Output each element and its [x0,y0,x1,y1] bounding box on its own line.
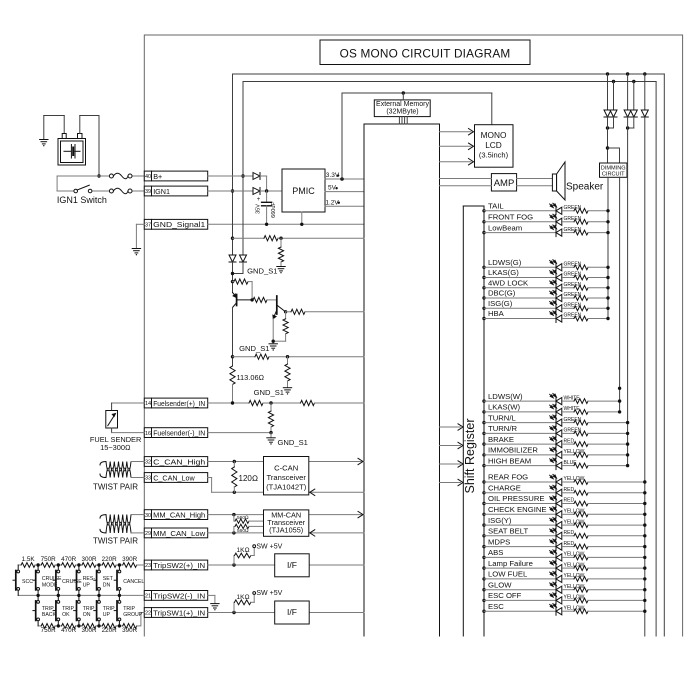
indicator LED CHECK ENGINE (yellow) with series resistor [482,505,646,518]
wire 1.2V [325,205,364,207]
svg-text:OS MONO CIRCUIT DIAGRAM: OS MONO CIRCUIT DIAGRAM [340,47,511,61]
svg-text:Fuelsender(-)_IN: Fuelsender(-)_IN [153,429,205,438]
ground GND_S1 node 1 [277,267,285,274]
title box [320,40,530,65]
outer enclosure border [144,35,682,636]
svg-text:SET: SET [103,576,114,582]
svg-text:TRIP: TRIP [123,606,135,612]
switch TRIP BACK [33,595,40,626]
svg-text:DIMMING: DIMMING [601,165,626,171]
twisted pair (MM-CAN) [106,515,131,526]
AMP U6 [491,174,516,191]
svg-text:RED: RED [564,438,575,444]
svg-text:RES-: RES- [83,576,96,582]
resistor 1K pull-up 1 [233,556,235,566]
svg-text:CRUISE: CRUISE [42,576,62,582]
svg-text:C_CAN_Low: C_CAN_Low [153,473,195,482]
svg-text:Shift Register: Shift Register [463,418,477,493]
resistor 113.06 ohm [230,366,235,384]
svg-text:RED: RED [564,530,575,536]
svg-text:GND_Signal1: GND_Signal1 [153,220,205,229]
indicator LED ESC OFF (yellow) with series resistor [482,591,646,604]
wire diode pair 2 merge [633,117,635,128]
svg-text:ISG(Y): ISG(Y) [488,516,512,525]
diode D3 [607,74,609,110]
junction dots ladder bottom rail [57,624,60,627]
svg-text:(3.5inch): (3.5inch) [479,151,509,160]
svg-text:4WD LOCK: 4WD LOCK [488,279,529,288]
svg-text:LDWS(W): LDWS(W) [488,392,523,401]
wire CPU to shift register 2 [440,445,461,447]
ground GND_S1 node 3 [283,388,291,395]
wire battery positive to B+ node [79,116,81,134]
wire LCD data 3 [440,161,472,163]
svg-text:35V: 35V [256,204,262,214]
svg-text:LKAS(G): LKAS(G) [488,268,519,277]
wire MM_CAN_High [208,514,364,516]
wire TripSW2(+) row [208,564,275,566]
diode D6 [633,82,635,111]
transistor Q2 (NPN) [273,296,286,319]
wire memory top pin [402,93,404,100]
switch TRIP ON [74,595,81,626]
wire LCD data 2 [440,145,472,147]
svg-text:300R: 300R [81,556,97,563]
junction dots ladder mid rail [36,594,39,597]
svg-text:1.5K: 1.5K [22,556,36,563]
indicator LED REAR FOG (yellow) with series resistor [482,473,646,486]
wire B+ riser x=243 [242,82,244,255]
svg-text:29: 29 [145,531,151,537]
wire GND_Signal1 stub to ground [136,223,144,225]
ground GND_S1 node 2 [269,344,277,351]
svg-text:DBC(G): DBC(G) [488,289,516,298]
wire LED rail green x=608 [607,177,609,318]
resistor to GND_S1 (x=281) [280,238,282,247]
svg-text:TripSW2(+)_IN: TripSW2(+)_IN [153,561,205,570]
pin 22 TripSW1(+)_IN [144,608,207,618]
svg-text:ABS: ABS [488,548,503,557]
svg-text:DN: DN [103,583,111,589]
svg-text:300R: 300R [81,627,97,634]
speaker LS1 [552,162,565,200]
svg-text:220R: 220R [102,627,118,634]
svg-text:TURN/R: TURN/R [488,424,517,433]
indicator LED LDWS(W) (white) with series resistor [482,392,621,405]
indicator LED DBC(G) (green) with series resistor [482,289,609,302]
svg-text:ON: ON [83,612,91,618]
pin 40 B+ [144,171,207,181]
svg-text:560Ω: 560Ω [237,515,249,521]
svg-text:HIGH BEAM: HIGH BEAM [488,456,531,465]
wire 5V [325,191,364,193]
svg-text:MONO: MONO [481,130,507,140]
wire LED rail white x=620.5 [619,177,621,412]
switch RES- UP [74,565,81,595]
resistor fuel sense to GND [270,403,272,411]
interface I/F 2 [275,601,310,624]
svg-text:CRUISE: CRUISE [62,579,82,585]
svg-text:IGN1: IGN1 [153,187,170,196]
svg-text:B+: B+ [153,172,162,181]
svg-text:Speaker: Speaker [566,181,604,192]
indicator LED IMMOBILIZER (yellow) with series resistor [482,446,629,459]
ground TripSW2(-) [211,604,219,611]
svg-text:LDWS(G): LDWS(G) [488,258,522,267]
junction diode outputs [265,189,268,192]
transistor Q1 (PNP) [233,293,253,308]
wire AMP to speaker [517,178,553,180]
svg-text:IGN1 Switch: IGN1 Switch [57,195,107,205]
wire top rail B+ y=81.5 [243,81,656,83]
svg-text:UP: UP [103,612,111,618]
fuse F1 (B+) [109,173,132,179]
svg-text:Lamp Failure: Lamp Failure [488,559,533,568]
svg-text:MM_CAN_High: MM_CAN_High [153,511,205,520]
wire TripSW1(+) row [208,612,275,614]
svg-text:REAR FOG: REAR FOG [488,473,528,482]
svg-text:ESC: ESC [488,602,504,611]
svg-text:GND_S1: GND_S1 [247,267,277,276]
svg-text:UP: UP [83,583,91,589]
switch SET DN [94,565,101,595]
svg-text:GND_S1: GND_S1 [239,344,269,353]
svg-text:BACK: BACK [42,612,57,618]
svg-text:GND_S1: GND_S1 [254,388,284,397]
svg-text:470R: 470R [61,556,77,563]
svg-text:1KΩ: 1KΩ [237,594,250,601]
indicator LED GLOW (yellow) with series resistor [482,580,646,593]
wire Fuelsender(+) line [208,402,249,404]
battery B1 [58,134,86,166]
svg-text:113.06Ω: 113.06Ω [237,373,265,382]
svg-text:+: + [257,197,261,203]
svg-text:WHITE: WHITE [564,395,581,401]
wire right rail B+ x=656.1 [655,82,657,637]
wire LED rail yellow x=644 [644,117,646,636]
svg-text:AMP: AMP [494,178,515,189]
wire MM_CAN_Low [208,532,364,534]
svg-text:33: 33 [145,476,151,482]
diode D5 [627,74,629,110]
indicator LED FRONT FOG (green) with series resistor [482,213,609,226]
svg-text:TripSW1(+)_IN: TripSW1(+)_IN [153,608,205,617]
svg-text:750R: 750R [41,627,57,634]
svg-text:CIRCUIT: CIRCUIT [602,172,625,178]
svg-text:External Memory: External Memory [376,101,429,108]
indicator LED BRAKE (red) with series resistor [482,435,629,448]
svg-text:CANCEL: CANCEL [123,579,144,585]
diode D7 [644,74,646,110]
indicator LED ISG(Y) (yellow) with series resistor [482,516,646,529]
svg-text:TRIP: TRIP [83,606,95,612]
wire TripSW2(-) to ground [208,594,215,596]
svg-text:750R: 750R [41,556,57,563]
MCU U3 (main processor) [364,124,440,636]
pin 21 TripSW2(-)_IN [144,591,207,601]
svg-text:LKAS(W): LKAS(W) [488,403,520,412]
svg-text:C_CAN_High: C_CAN_High [153,457,205,466]
indicator LED TURN/L (green) with series resistor [482,413,629,426]
svg-text:32: 32 [145,460,151,466]
svg-text:WHITE: WHITE [564,406,581,412]
svg-text:C-CAN: C-CAN [274,464,298,473]
indicator LED ABS (yellow) with series resistor [482,548,646,561]
wires memory data pins [398,117,400,124]
pin 37 GND_Signal1 [144,219,207,229]
svg-text:TWIST PAIR: TWIST PAIR [93,483,138,492]
svg-text:GND_S1: GND_S1 [278,438,308,447]
resistor 120 ohm termination [233,462,235,468]
indicator LED ISG(G) (green) with series resistor [482,299,609,312]
fuel sender R (rheostat) [112,402,145,404]
resistor 560 ohm (RTH) [233,515,235,522]
svg-text:RED: RED [564,487,575,493]
svg-text:470R: 470R [61,627,77,634]
wire 3.3V riser to LCD [341,93,343,179]
switch SCC [13,565,20,595]
svg-text:390R: 390R [122,627,138,634]
indicator LED Lamp Failure (yellow) with series resistor [482,559,646,572]
wire CPU to shift register 1 [440,426,461,428]
wire dimming feed [607,117,609,163]
wire ladder top rail [18,564,21,566]
svg-text:14: 14 [145,401,151,407]
wire diode merge to transistor [242,262,244,274]
indicator LED TURN/R (green) with series resistor [482,424,629,437]
diode D1 (B+) [253,173,260,180]
pin 23 TripSW2(+)_IN [144,560,207,570]
svg-text:1KΩ: 1KΩ [237,547,250,554]
svg-text:1.2V: 1.2V [325,200,339,207]
indicator LED CHARGE (red) with series resistor [482,484,646,497]
svg-text:I/F: I/F [287,560,297,570]
svg-text:OK: OK [62,612,70,618]
wire sense line y=356.7 [233,356,256,358]
svg-text:HBA: HBA [488,309,505,318]
indicator LED HBA (green) with series resistor [482,309,609,322]
svg-text:SW +5V: SW +5V [256,590,282,597]
svg-text:SW +5V: SW +5V [256,543,282,550]
svg-text:660uF: 660uF [271,202,277,218]
svg-text:16: 16 [145,431,151,437]
svg-text:PMIC: PMIC [292,186,315,196]
fuse F2 (IGN1) [109,188,132,194]
svg-text:TRIP: TRIP [103,606,115,612]
svg-text:LowBeam: LowBeam [488,223,522,232]
junction memory power [402,91,405,94]
wire ladder mid rail [18,594,144,596]
ground GND_S1 node 4 [267,438,275,445]
wire top rail IGN1 y=74 [233,73,665,75]
pin 14 Fuelsender(+)_IN [144,398,207,408]
indicator LED ESC (yellow) with series resistor [482,602,646,615]
diode D4 [613,82,615,111]
svg-text:TripSW2(-)_IN: TripSW2(-)_IN [153,591,205,600]
svg-text:TAIL: TAIL [488,202,504,211]
svg-text:5V: 5V [328,185,337,192]
resistor to GND_S1 (x=287.5) [287,357,289,364]
switch CRUISE [53,565,60,595]
wire Q2 collector line to CPU [284,310,287,313]
svg-text:Fuelsender(+)_IN: Fuelsender(+)_IN [153,399,205,408]
svg-text:CHARGE: CHARGE [488,484,521,493]
svg-text:MM_CAN_Low: MM_CAN_Low [153,529,206,538]
pin 33 C_CAN_Low [144,473,207,483]
svg-text:RED: RED [564,541,575,547]
svg-text:23: 23 [145,563,151,569]
diode D8 (IGN1 riser) [229,255,236,262]
diode D9 (B+ riser) [240,255,247,262]
svg-text:(32MByte): (32MByte) [386,108,418,115]
svg-text:ESC OFF: ESC OFF [488,591,522,600]
wire diode pair 1 merge [613,117,615,128]
svg-text:120Ω: 120Ω [239,474,259,483]
indicator LED MDPS (red) with series resistor [482,537,646,550]
MM-CAN transceiver U8 [264,510,309,536]
junction battery/B+ [97,174,100,177]
indicator LED HIGH BEAM (blue) with series resistor [482,456,629,469]
svg-text:220R: 220R [102,556,118,563]
svg-text:TURN/L: TURN/L [488,413,516,422]
svg-text:390R: 390R [122,556,138,563]
resistor 560 ohm (RTL) [233,526,235,533]
indicator LED LKAS(G) (green) with series resistor [482,268,609,281]
wire Fuelsender(-) line [208,432,271,434]
wire 3.3V [325,178,364,180]
wire Q2 emitter to ground [272,319,274,344]
pin 32 C_CAN_High [144,457,207,467]
svg-text:GROUP: GROUP [123,612,143,618]
svg-text:30: 30 [145,513,151,519]
wire C_CAN_High [208,461,364,463]
svg-text:TRIP: TRIP [62,606,74,612]
switch TRIP UP [94,595,101,626]
wire ladder bottom rail [38,625,41,627]
wire IGN1 to PMIC [208,190,253,192]
pin 30 MM_CAN_High [144,510,207,520]
svg-text:MDPS: MDPS [488,537,510,546]
indicator LED LowBeam (green) with series resistor [482,223,609,236]
svg-text:OIL PRESSURE: OIL PRESSURE [488,494,545,503]
capacitor C1 660uF 35V [256,191,278,224]
svg-text:FRONT FOG: FRONT FOG [488,213,533,222]
svg-text:(TJA1055): (TJA1055) [269,526,303,535]
switch CANCEL [114,565,121,595]
switch IGN1 [74,185,92,193]
svg-text:LCD: LCD [485,140,502,150]
wire Q1 collector down [232,308,234,367]
pin 39 IGN1 [144,186,207,196]
indicator LED LOW FUEL (yellow) with series resistor [482,570,646,583]
switch CRUISE MODE [33,565,40,595]
svg-text:RED: RED [564,498,575,504]
switch TRIP OK [53,595,60,626]
wire CPU to shift register 3 [440,463,461,465]
indicator LED OIL PRESSURE (red) with series resistor [482,494,646,507]
svg-text:CHECK ENGINE: CHECK ENGINE [488,505,547,514]
wire CPU to shift register 4 [440,482,461,484]
wire GND_Signal1 rail [208,223,364,225]
svg-text:ISG(G): ISG(G) [488,299,513,308]
external memory U4 [374,100,430,117]
junction dots on top rails [606,72,609,75]
wire LED rail pair2 x=626.5 [627,117,629,128]
svg-text:Transceiver: Transceiver [267,473,307,482]
svg-text:I/F: I/F [287,607,297,617]
PMIC U2 [282,169,325,212]
svg-text:BRAKE: BRAKE [488,435,514,444]
resistor base feed Q1 [234,279,248,284]
ground (battery negative) [40,116,48,147]
pin 29 MM_CAN_Low [144,528,207,538]
indicator LED 4WD LOCK (green) with series resistor [482,279,609,292]
resistor Q2 collector to emitter [285,312,287,319]
svg-text:GLOW: GLOW [488,580,512,589]
svg-text:39: 39 [145,189,151,195]
wire PMIC bottom to GND [301,212,303,224]
svg-text:(TJA1042T): (TJA1042T) [266,483,307,492]
wire sense line y=238.2 [231,237,234,240]
wire battery negative to ground [44,115,64,117]
wire LED feed rail x=484 [483,206,485,636]
shift register box [462,206,464,636]
svg-text:21: 21 [145,594,151,600]
svg-text:37: 37 [145,223,151,229]
C-CAN transceiver U7 [264,457,309,495]
switch TRIP GROUP [114,595,121,626]
resistor 1K pull-up 2 [233,602,235,612]
interface I/F 1 [275,554,310,577]
svg-text:SEAT BELT: SEAT BELT [488,527,528,536]
wire CPU to AMP [440,178,492,180]
svg-text:LOW FUEL: LOW FUEL [488,570,528,579]
indicator LED TAIL (green) with series resistor [482,202,609,215]
svg-text:22: 22 [145,611,151,617]
svg-text:TWIST PAIR: TWIST PAIR [93,537,138,546]
twisted pair (C-CAN) [106,462,131,472]
indicator LED LDWS(G) (green) with series resistor [482,258,609,271]
svg-text:40: 40 [145,174,151,180]
wire B+ to PMIC [208,175,253,177]
wire IGN1 branch [56,176,58,191]
wire IGN1 riser x=232.5 [232,74,234,255]
wire LCD data 1 [440,131,472,133]
MONO LCD module [475,125,514,168]
wire B+ feed [57,175,111,177]
diode D2 (IGN1) [253,188,260,195]
dimming circuit U5 [600,163,628,178]
pin 16 Fuelsender(-)_IN [144,428,207,438]
svg-text:15~300Ω: 15~300Ω [100,443,131,452]
svg-text:560Ω: 560Ω [237,528,249,534]
svg-text:TRIP: TRIP [42,606,54,612]
svg-text:SCC: SCC [22,579,33,585]
indicator LED SEAT BELT (red) with series resistor [482,527,646,540]
svg-text:IMMOBILIZER: IMMOBILIZER [488,446,538,455]
wire C_CAN_Low [208,477,212,479]
resistor base feed Q2 [253,297,267,302]
wire right rail IGN1 x=664.3 [663,74,665,636]
ground (GND_Signal1 pin) [132,249,140,256]
indicator LED LKAS(W) (white) with series resistor [482,403,621,416]
junction dots ladder top rail [36,563,39,566]
